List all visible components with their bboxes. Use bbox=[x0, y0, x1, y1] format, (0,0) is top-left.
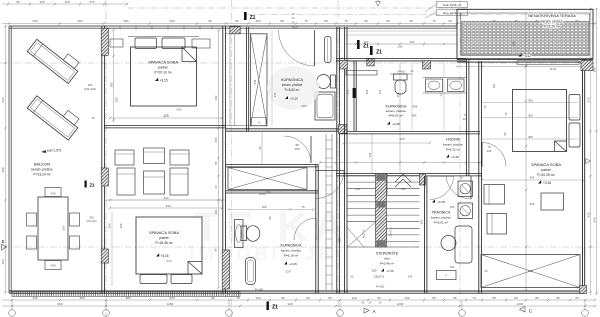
svg-text:305: 305 bbox=[530, 202, 535, 206]
hatched pier (423,61) bbox=[423, 61, 431, 70]
armchair row2 b bbox=[144, 171, 165, 194]
svg-text:P=5,29 m²: P=5,29 m² bbox=[544, 25, 561, 29]
svg-text:80: 80 bbox=[235, 19, 239, 23]
svg-text:430: 430 bbox=[586, 212, 590, 217]
svg-text:390: 390 bbox=[79, 296, 84, 300]
svg-text:525: 525 bbox=[399, 137, 404, 141]
svg-text:+3,15: +3,15 bbox=[543, 181, 551, 185]
svg-text:390: 390 bbox=[115, 97, 119, 102]
svg-text:150: 150 bbox=[450, 205, 455, 209]
svg-text:P=18,36 m²: P=18,36 m² bbox=[155, 241, 173, 245]
vertical dim chain through bedroom3 bbox=[525, 12, 527, 290]
stair up chevron bbox=[395, 174, 411, 182]
svg-text:SPAVAĆA SOBA: SPAVAĆA SOBA bbox=[149, 230, 179, 235]
svg-text:+3,15: +3,15 bbox=[451, 155, 459, 159]
svg-text:keram. pločice: keram. pločice bbox=[443, 143, 463, 147]
stairwell left wall x=344.6 bbox=[344, 27, 346, 293]
svg-text:keram. pločice: keram. pločice bbox=[282, 83, 303, 87]
svg-text:120: 120 bbox=[338, 237, 342, 242]
stair flight left treads bbox=[348, 175, 376, 177]
svg-text:90: 90 bbox=[211, 296, 215, 300]
svg-text:940: 940 bbox=[287, 302, 292, 306]
shaft between bath3 and stairs bbox=[325, 134, 327, 290]
hatched pier (339,125) bbox=[339, 125, 348, 134]
svg-text:165: 165 bbox=[365, 89, 369, 94]
right dimension line 1 bbox=[590, 8, 592, 295]
svg-text:P=90: P=90 bbox=[397, 70, 404, 74]
bath1 toilet bbox=[331, 75, 336, 88]
svg-text:429: 429 bbox=[169, 19, 174, 23]
wardrobe niche bbox=[252, 118, 267, 126]
washer 1 bbox=[458, 181, 473, 197]
svg-text:+3,15: +3,15 bbox=[160, 254, 168, 258]
svg-text:70: 70 bbox=[432, 19, 436, 23]
svg-text:75: 75 bbox=[236, 296, 240, 300]
svg-text:98: 98 bbox=[280, 19, 284, 23]
svg-text:396: 396 bbox=[413, 105, 418, 109]
dresser right bbox=[192, 39, 210, 48]
wall hodnik/bedroom x=479 bbox=[478, 61, 480, 293]
svg-text:305: 305 bbox=[530, 176, 535, 180]
door arc right of bath3 wall bbox=[316, 171, 344, 199]
svg-text:429: 429 bbox=[163, 114, 169, 118]
svg-text:360: 360 bbox=[119, 223, 123, 228]
dim chain x=218.5 bbox=[218, 30, 220, 288]
svg-text:drvo 10x4 cm: drvo 10x4 cm bbox=[443, 11, 462, 15]
svg-text:P=6,31 m²: P=6,31 m² bbox=[446, 148, 460, 152]
axis line vertical x=338 bbox=[337, 0, 339, 317]
hatched pier (377,174) bbox=[377, 174, 388, 194]
dim chain x=400 bbox=[399, 63, 401, 173]
terrace label bbox=[528, 13, 576, 28]
corridor bottom wall y=173.5 bbox=[336, 173, 482, 175]
washer 2 bbox=[458, 203, 473, 219]
svg-text:150: 150 bbox=[492, 83, 496, 88]
svg-text:P=0: P=0 bbox=[292, 25, 298, 29]
stair flight right treads bbox=[387, 175, 420, 177]
svg-text:[240+20]: [240+20] bbox=[87, 220, 97, 223]
svg-text:B: B bbox=[2, 239, 5, 244]
hatched pier x102 top bbox=[101, 28, 108, 55]
bedroom3 horizontal dim bbox=[482, 179, 584, 181]
svg-text:75: 75 bbox=[504, 112, 508, 115]
svg-text:drvo: drvo bbox=[384, 257, 390, 261]
armchair row1 c bbox=[170, 150, 189, 165]
bed 1 bbox=[131, 47, 197, 106]
bottom axis bubbles bbox=[9, 310, 16, 317]
svg-text:+3,15: +3,15 bbox=[159, 79, 167, 83]
laundry sink bbox=[455, 226, 472, 263]
svg-text:248: 248 bbox=[253, 79, 257, 84]
armchair row2 c bbox=[170, 168, 188, 195]
svg-text:+3,15: +3,15 bbox=[289, 262, 297, 266]
svg-text:420: 420 bbox=[169, 296, 174, 300]
svg-text:100: 100 bbox=[355, 187, 360, 191]
bed 3 pillows bbox=[569, 95, 580, 121]
hatched pier terrace corner bbox=[581, 61, 593, 71]
svg-text:364: 364 bbox=[108, 223, 112, 228]
svg-text:10: 10 bbox=[485, 269, 488, 273]
svg-text:95: 95 bbox=[453, 296, 457, 300]
door arc bedroom3 bbox=[482, 143, 506, 167]
svg-text:100: 100 bbox=[398, 45, 403, 49]
svg-text:keram. pločice: keram. pločice bbox=[386, 109, 406, 113]
svg-text:parket: parket bbox=[541, 168, 550, 172]
svg-text:P=150: P=150 bbox=[376, 285, 385, 289]
bath2 top wall y=58.5 bbox=[336, 58, 466, 60]
svg-text:224: 224 bbox=[420, 219, 424, 224]
dim chain x=444 bbox=[443, 63, 445, 131]
svg-text:STEPENIŠTE: STEPENIŠTE bbox=[376, 251, 399, 256]
svg-text:HODNIK: HODNIK bbox=[446, 138, 461, 142]
svg-text:170: 170 bbox=[273, 92, 277, 97]
praonica left wall x=425 bbox=[424, 176, 426, 293]
bedroom2 dims bbox=[110, 207, 222, 209]
top dimension row 1 bbox=[2, 3, 128, 5]
outer wall right bbox=[582, 59, 584, 293]
bath2 right wall x=466.5 bbox=[466, 59, 468, 177]
svg-text:P=5,01 m²: P=5,01 m² bbox=[434, 221, 448, 225]
closet strip interior lines bbox=[226, 33, 266, 35]
svg-text:305: 305 bbox=[528, 113, 533, 117]
bath1 door arc bbox=[279, 30, 315, 66]
axis line horizontal y=14.5 bbox=[246, 14, 592, 16]
svg-text:4x17,5: 4x17,5 bbox=[362, 229, 366, 238]
bath2 toilet bbox=[394, 74, 408, 80]
svg-text:305: 305 bbox=[408, 275, 413, 279]
bath3 right wall x=316 bbox=[315, 165, 317, 294]
dining table bbox=[38, 197, 68, 260]
svg-text:95: 95 bbox=[268, 216, 272, 220]
svg-text:22x17,5: 22x17,5 bbox=[374, 275, 384, 279]
svg-text:80: 80 bbox=[324, 19, 328, 23]
nightstand left bbox=[110, 39, 123, 47]
left dimension line bbox=[5, 25, 7, 293]
bath3 washbasin bbox=[235, 220, 244, 248]
armchair b3 b bbox=[487, 214, 507, 235]
svg-text:380: 380 bbox=[1, 167, 5, 172]
armchair row1 b bbox=[144, 148, 165, 164]
svg-text:640: 640 bbox=[592, 217, 596, 222]
svg-text:190: 190 bbox=[255, 296, 260, 300]
svg-text:25: 25 bbox=[448, 19, 452, 23]
window mullion ticks top wall bbox=[119, 26, 121, 30]
hatched pier top wall x230 bbox=[230, 27, 240, 34]
svg-text:290: 290 bbox=[62, 225, 66, 230]
outer wall bottom bbox=[9, 290, 585, 292]
svg-text:85: 85 bbox=[492, 296, 496, 300]
dim lines crossing bed3 bbox=[482, 102, 578, 104]
stair cut diagonals left flight bbox=[348, 222, 376, 247]
svg-text:SPAVAĆA SOBA: SPAVAĆA SOBA bbox=[531, 162, 561, 167]
svg-text:P=90: P=90 bbox=[259, 192, 266, 196]
svg-text:305: 305 bbox=[528, 269, 533, 273]
svg-text:Z1: Z1 bbox=[89, 183, 95, 188]
material note boxes: celik / drvo bbox=[437, 2, 468, 8]
low cabinet bbox=[437, 271, 457, 280]
svg-text:50: 50 bbox=[503, 132, 507, 135]
hatched pier (367,58.5) bbox=[367, 58, 374, 66]
terrace grid paving bbox=[462, 22, 589, 55]
svg-text:120: 120 bbox=[351, 296, 356, 300]
svg-text:95: 95 bbox=[361, 300, 365, 304]
svg-text:KUPAONICA: KUPAONICA bbox=[281, 78, 304, 82]
terrace bottom edge / step bbox=[457, 59, 593, 61]
svg-text:P=3,46 m²: P=3,46 m² bbox=[380, 262, 394, 266]
bath1 bathtub bbox=[315, 92, 335, 120]
svg-text:380: 380 bbox=[123, 19, 128, 23]
door arc hodnik to bedroom bbox=[446, 176, 471, 199]
hatched pier x102 mid bbox=[101, 168, 108, 186]
axis line vertical x=106 bbox=[105, 0, 107, 317]
svg-text:100: 100 bbox=[401, 187, 406, 191]
svg-text:NENATKRIVENA TERASA: NENATKRIVENA TERASA bbox=[528, 13, 576, 18]
bottom axis marker A bbox=[364, 308, 369, 313]
svg-text:10: 10 bbox=[459, 176, 463, 180]
svg-text:parket: parket bbox=[159, 236, 168, 240]
corridor dim x=262 bbox=[261, 131, 263, 165]
wardrobe bedroom3 with X bbox=[481, 255, 580, 288]
bedroom1 dim line bbox=[110, 117, 222, 119]
bath3 toilet bbox=[241, 226, 247, 241]
svg-text:165: 165 bbox=[262, 205, 267, 209]
hatched pier x223 low bbox=[222, 250, 229, 289]
bottom insulation tick strip bbox=[12, 292, 240, 297]
praonica door arc bbox=[430, 176, 454, 200]
wall bedroom1 bottom y=125.5 bbox=[104, 125, 226, 127]
bottom Z1 marker bbox=[267, 302, 269, 311]
svg-text:340: 340 bbox=[163, 196, 168, 200]
svg-text:80: 80 bbox=[306, 296, 310, 300]
bath3 shower column bbox=[246, 258, 256, 285]
Z1 marker pair mid bbox=[357, 40, 360, 49]
svg-text:KUPAONICA: KUPAONICA bbox=[281, 244, 303, 248]
upper open zone lines x344-457 bbox=[344, 30, 457, 32]
wardrobe corridor with X bbox=[228, 168, 307, 190]
lounge chair 1 bbox=[27, 33, 82, 83]
svg-text:206: 206 bbox=[294, 147, 299, 151]
svg-text:Z1: Z1 bbox=[376, 50, 382, 56]
svg-text:80: 80 bbox=[556, 296, 560, 300]
svg-text:960: 960 bbox=[57, 302, 62, 306]
bed 1 headboard shelf bbox=[128, 36, 199, 38]
side table b3 bbox=[541, 193, 564, 210]
svg-text:33: 33 bbox=[91, 116, 95, 120]
bottom dimension row 2 bbox=[2, 305, 595, 307]
level mark bedroom1 bbox=[155, 78, 158, 81]
svg-text:206: 206 bbox=[463, 117, 468, 121]
svg-text:80: 80 bbox=[386, 19, 390, 23]
left axis marker B bbox=[2, 244, 7, 250]
svg-text:125: 125 bbox=[378, 89, 382, 94]
svg-text:70: 70 bbox=[472, 296, 476, 300]
svg-text:1230: 1230 bbox=[517, 302, 524, 306]
door arc corridor (bath3 upper door) bbox=[284, 136, 311, 163]
bed 1 pillows bbox=[135, 38, 157, 49]
svg-text:200: 200 bbox=[89, 216, 94, 220]
bath2 shelf bbox=[346, 71, 377, 76]
svg-text:P=6,18 m²: P=6,18 m² bbox=[284, 254, 298, 258]
outer wall left bbox=[8, 26, 10, 293]
svg-text:parket: parket bbox=[158, 66, 167, 70]
svg-text:keram. pločice: keram. pločice bbox=[541, 19, 563, 23]
bath2 sink b bbox=[448, 79, 465, 92]
bottom axis marker C bbox=[520, 307, 526, 313]
svg-text:200: 200 bbox=[255, 19, 260, 23]
svg-text:10: 10 bbox=[483, 105, 487, 108]
wall y=165 corridor bottom left bbox=[226, 164, 318, 166]
bath1 label bbox=[267, 66, 319, 110]
svg-text:P=20,25 m²: P=20,25 m² bbox=[537, 173, 555, 177]
svg-text:200: 200 bbox=[88, 83, 93, 87]
svg-text:340: 340 bbox=[165, 204, 170, 208]
bath1 closet strip left wall x=247 bbox=[246, 27, 248, 131]
svg-text:+1,58: +1,58 bbox=[386, 269, 394, 273]
svg-text:25: 25 bbox=[368, 300, 372, 304]
svg-text:150: 150 bbox=[404, 296, 409, 300]
axis line horizontal y=247 bbox=[0, 246, 600, 248]
top dash-dot collector line bbox=[128, 7, 470, 9]
svg-text:pad 1,5%: pad 1,5% bbox=[47, 149, 61, 153]
svg-text:433: 433 bbox=[32, 19, 37, 23]
armchair row2 a bbox=[117, 168, 135, 195]
svg-text:375: 375 bbox=[89, 0, 94, 4]
right dimension line 2 bbox=[596, 8, 598, 295]
axis line vertical x=460 bbox=[459, 0, 461, 317]
svg-text:čelik 16x8 cm: čelik 16x8 cm bbox=[443, 3, 462, 7]
axis line horizontal y=63 bbox=[0, 62, 600, 64]
armchair row1 a bbox=[115, 150, 134, 165]
svg-text:keram. pločice: keram. pločice bbox=[31, 168, 52, 172]
svg-text:keram. pločice: keram. pločice bbox=[281, 249, 301, 253]
svg-text:16x17,5: 16x17,5 bbox=[389, 227, 393, 237]
wall y=129 bath1 bottom bbox=[226, 128, 340, 130]
svg-text:70: 70 bbox=[440, 93, 444, 97]
svg-text:[240+220]: [240+220] bbox=[84, 87, 96, 91]
top Z1 wall-type marker bbox=[244, 12, 247, 20]
svg-text:Z1: Z1 bbox=[272, 305, 278, 311]
svg-text:240: 240 bbox=[50, 264, 55, 268]
svg-text:420: 420 bbox=[177, 108, 182, 112]
svg-text:32: 32 bbox=[378, 300, 382, 304]
hatched pier (420,174) bbox=[420, 174, 426, 185]
bottom dimension row 1 bbox=[2, 299, 595, 301]
svg-text:95: 95 bbox=[258, 146, 262, 150]
top dimension row 2 bbox=[2, 23, 595, 25]
dim chain x=412 bbox=[411, 63, 413, 131]
svg-text:305: 305 bbox=[528, 98, 533, 102]
svg-text:SPAVAĆA SOBA: SPAVAĆA SOBA bbox=[148, 60, 178, 65]
svg-text:BALKON: BALKON bbox=[34, 162, 50, 167]
outer wall top bbox=[9, 25, 457, 27]
svg-text:PRAONICA: PRAONICA bbox=[432, 211, 451, 215]
svg-text:Z1: Z1 bbox=[250, 15, 256, 21]
svg-text:+3,15: +3,15 bbox=[290, 97, 298, 101]
svg-text:+: + bbox=[445, 274, 447, 278]
svg-text:390: 390 bbox=[214, 95, 218, 100]
svg-text:90: 90 bbox=[16, 0, 20, 4]
tall wardrobe with X bbox=[251, 34, 268, 126]
svg-text:200: 200 bbox=[109, 82, 113, 87]
svg-text:80: 80 bbox=[214, 161, 218, 165]
svg-text:95: 95 bbox=[208, 19, 212, 23]
bath2 left wall x=354 bbox=[353, 61, 355, 131]
svg-text:P=6,91 m²: P=6,91 m² bbox=[389, 114, 403, 118]
svg-text:85: 85 bbox=[432, 296, 436, 300]
terrace level mark +3,12 bbox=[523, 54, 531, 58]
solid wall fill segment on bath2 left wall bbox=[353, 88, 356, 98]
svg-text:+3,15: +3,15 bbox=[437, 200, 445, 204]
svg-text:340: 340 bbox=[167, 259, 172, 263]
hatched pier x102 low bbox=[101, 249, 108, 263]
dining chairs bbox=[27, 213, 37, 226]
hodnik vertical dim bbox=[371, 134, 373, 173]
bath3 door arc bbox=[294, 218, 316, 240]
watermark bbox=[189, 203, 350, 264]
svg-text:390: 390 bbox=[77, 19, 82, 23]
level mark bedroom2 bbox=[156, 253, 159, 256]
terrace inner border bbox=[461, 13, 590, 55]
hatched pier bottom right bbox=[580, 286, 587, 294]
vertical dim inside bedroom1 bbox=[113, 30, 115, 122]
bed 3 bbox=[513, 90, 567, 152]
stair center hatched wall bbox=[376, 174, 387, 248]
stair landing line bbox=[348, 246, 420, 248]
svg-text:75: 75 bbox=[301, 205, 305, 209]
wall y=191 bath3 top bbox=[226, 190, 318, 192]
svg-text:65: 65 bbox=[575, 296, 579, 300]
svg-text:206: 206 bbox=[487, 149, 492, 153]
svg-text:604: 604 bbox=[214, 137, 218, 142]
svg-text:85: 85 bbox=[535, 296, 539, 300]
svg-text:630: 630 bbox=[1, 97, 5, 102]
Z1 marker balcony bbox=[85, 181, 87, 188]
svg-text:P=0: P=0 bbox=[550, 68, 556, 72]
svg-text:95: 95 bbox=[377, 296, 381, 300]
svg-text:395: 395 bbox=[412, 114, 417, 118]
svg-text:240: 240 bbox=[50, 192, 55, 196]
svg-text:60: 60 bbox=[214, 185, 218, 189]
corridor dim row y=162.5 bbox=[320, 162, 480, 164]
svg-text:100: 100 bbox=[450, 265, 455, 269]
bath2 counter bbox=[423, 77, 466, 79]
wall bedrooms/baths x=223 bbox=[222, 26, 224, 293]
svg-text:90: 90 bbox=[364, 19, 368, 23]
armchair b3 a bbox=[484, 185, 505, 205]
right edge section marker bbox=[586, 159, 591, 164]
terrace outer border bbox=[457, 9, 593, 59]
svg-text:P=5,52 m²: P=5,52 m² bbox=[285, 88, 300, 92]
bath1 radiator bbox=[325, 37, 332, 63]
svg-text:360: 360 bbox=[1, 259, 5, 264]
svg-text:Z1: Z1 bbox=[363, 44, 369, 50]
wall balcony/interior x=102 bbox=[101, 26, 103, 293]
axis line vertical x=231.5 bbox=[231, 0, 233, 317]
svg-text:1200: 1200 bbox=[397, 302, 404, 306]
svg-text:P=20,10 m²: P=20,10 m² bbox=[154, 71, 172, 75]
bed 2 bbox=[136, 217, 202, 274]
svg-text:95: 95 bbox=[409, 19, 413, 23]
bath1 right wall x=337 full height bbox=[336, 27, 338, 293]
svg-text:P=23,24 m²: P=23,24 m² bbox=[33, 173, 51, 177]
svg-text:385: 385 bbox=[125, 296, 130, 300]
svg-text:75: 75 bbox=[304, 19, 308, 23]
svg-text:100: 100 bbox=[214, 209, 218, 214]
svg-text:425: 425 bbox=[39, 0, 44, 4]
svg-text:75: 75 bbox=[344, 19, 348, 23]
corridor wall y=131.5 long bbox=[340, 131, 480, 133]
bath2 sink a bbox=[426, 79, 443, 92]
